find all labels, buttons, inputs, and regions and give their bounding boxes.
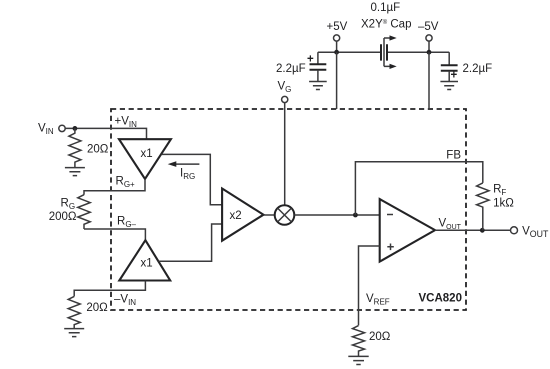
wire +5V into IC [336,52,338,109]
svg-text:20Ω: 20Ω [87,144,109,156]
ground (VREF) [348,356,368,364]
wire VREF to op-amp plus input [359,246,380,325]
node -5V junction [427,50,432,55]
wire FB loop [355,162,482,215]
buffer x1 (top) [119,139,171,179]
svg-text:2.2µF: 2.2µF [276,63,306,75]
ground (right bypass cap) [440,82,458,90]
wire IRG: x1 top output to x2 upper input [162,154,223,204]
ground (left bypass cap) [309,82,327,90]
svg-text:0.1µF: 0.1µF [371,2,401,14]
svg-text:2.2µF: 2.2µF [463,63,493,75]
wire x2 to multiplier [264,214,275,216]
wire RG to x1 bottom apex [84,229,145,240]
wire -VIN: x1 bottom to shunt [74,281,145,297]
svg-text:x1: x1 [141,258,153,270]
wire -5V terminal stub [428,41,430,52]
amplifier x2 [222,189,263,241]
svg-text:+5V: +5V [327,21,348,33]
node output junction [480,228,485,233]
terminal V_OUT [511,227,518,234]
resistor RG 200 ohm [78,195,90,229]
multiplier [275,205,295,225]
resistor 20 ohm (-VIN shunt) [68,296,80,328]
svg-text:x2: x2 [230,210,242,222]
node V_IN junction [73,126,78,131]
svg-text:20Ω: 20Ω [86,302,108,314]
ground (V_IN shunt) [65,168,85,176]
wire x1 bottom output to x2 lower input [158,224,222,261]
wire V_IN to +VIN input [65,128,146,139]
dashed IC boundary box [111,109,466,310]
node summing junction [353,213,358,218]
svg-text:FB: FB [446,150,461,162]
node +5V junction [334,50,339,55]
wire multiplier to op-amp inverting input [294,214,379,216]
op-amp plus sign [387,244,394,251]
wire supply rail [318,51,449,53]
buffer x1 (bottom) [119,240,170,280]
wire op-amp output to VOUT terminal [435,229,511,231]
op-amp U1 output buffer [380,199,435,262]
wire -5V into IC [428,52,430,109]
svg-text:x1: x1 [141,148,153,160]
resistor RF 1k ohm [477,183,489,230]
op-amp minus sign [387,214,393,216]
wire +5V terminal stub [336,41,338,52]
svg-text:20Ω: 20Ω [369,331,391,343]
resistor 20 ohm (VREF) [353,326,365,357]
svg-text:200Ω: 200Ω [49,211,77,223]
current arrow I_RG [176,163,199,165]
svg-text:VCA820: VCA820 [419,293,462,305]
svg-text:X2Y® Cap: X2Y® Cap [361,19,411,31]
resistor 20 ohm (V_IN shunt) [69,128,81,167]
wire x1 top apex to RG+ [84,179,145,195]
svg-text:1kΩ: 1kΩ [493,198,514,210]
wire V_G to multiplier [284,103,286,206]
svg-text:–5V: –5V [418,21,439,33]
capacitor 0.1uF X2Y [381,44,387,60]
ground (-VIN shunt) [64,329,84,337]
